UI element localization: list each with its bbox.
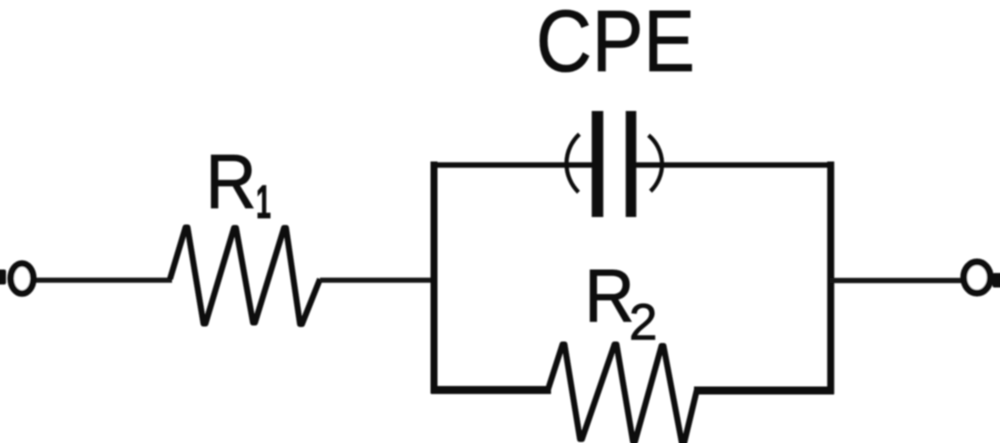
wire right stub at image edge bbox=[993, 273, 1000, 288]
wire bottom-right branch from R2 bbox=[694, 387, 834, 395]
svg-text:R: R bbox=[206, 139, 257, 225]
svg-text:CPE: CPE bbox=[536, 0, 695, 90]
svg-text:2: 2 bbox=[629, 294, 657, 351]
svg-text:R: R bbox=[585, 254, 635, 338]
resistor R1 zigzag bbox=[170, 228, 320, 325]
terminal (left input circle) bbox=[11, 264, 34, 294]
terminal (right output circle) bbox=[964, 262, 991, 293]
capacitor CPE right plate bbox=[626, 111, 637, 217]
resistor R2 zigzag bbox=[548, 345, 697, 443]
wire top-left branch to CPE bbox=[431, 162, 594, 168]
CPE right arc bbox=[649, 135, 663, 191]
wire bottom-left branch to R2 bbox=[431, 386, 551, 394]
CPE left arc bbox=[566, 134, 579, 192]
wire from left terminal to R1 bbox=[30, 278, 172, 283]
capacitor CPE left plate bbox=[592, 111, 604, 217]
wire from box to right terminal bbox=[830, 278, 965, 283]
svg-text:1: 1 bbox=[256, 175, 271, 228]
wire left stub at image edge bbox=[0, 270, 6, 285]
wire top-right branch from CPE bbox=[634, 162, 834, 168]
node / box left vertical edge bbox=[431, 162, 438, 394]
wire from R1 to parallel node bbox=[320, 278, 437, 283]
box right vertical edge bbox=[827, 162, 834, 395]
